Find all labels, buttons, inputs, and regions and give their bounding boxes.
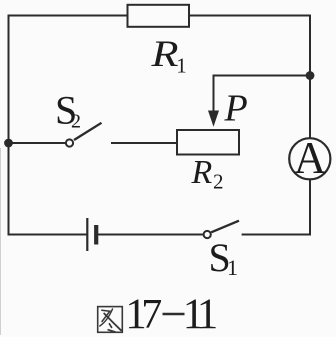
wire: top rail left segment [9, 15, 128, 17]
wire: left rail [8, 16, 10, 235]
wire: bottom rail right (switch S1 to corner) [243, 234, 310, 236]
rheostat R2 [177, 130, 239, 155]
svg-text:2: 2 [71, 111, 81, 133]
label S1 [209, 235, 239, 280]
wire: bottom rail middle (battery to switch S1) [98, 234, 203, 236]
svg-text:7: 7 [141, 292, 162, 337]
label R2 [191, 154, 224, 194]
resistor R1 [128, 5, 190, 27]
svg-text:2: 2 [213, 170, 224, 194]
svg-text:R: R [150, 34, 178, 75]
caption: dash [163, 313, 185, 316]
wire: bottom rail left (corner to battery) [9, 234, 87, 236]
wire: right rail upper (top corner to ammeter) [309, 16, 311, 139]
caption: figure number 17-11 [125, 291, 218, 337]
switch S2 [66, 123, 102, 147]
wire: middle branch right (switch S2 to R2) [112, 142, 177, 144]
wire: top rail right segment [189, 15, 310, 17]
switch S1 [204, 221, 239, 238]
svg-text:1: 1 [197, 291, 219, 337]
battery (cell) [87, 218, 96, 251]
wire: slider branch from node to arrow [214, 76, 311, 112]
scan artifact: faint left edge line [0, 148, 2, 335]
svg-text:A: A [294, 133, 327, 183]
node B (junction dot on left rail) [4, 139, 13, 148]
label S2 [55, 88, 81, 133]
slider arrow P (wiper arrowhead) [208, 111, 219, 127]
caption: hand-drawn CJK glyph "tu" (figure) [98, 307, 123, 333]
label R1 [150, 34, 186, 78]
ammeter U1 [289, 133, 330, 183]
svg-text:1: 1 [176, 54, 187, 78]
svg-text:P: P [224, 88, 248, 130]
svg-text:R: R [191, 154, 213, 191]
wire: middle branch left (node to switch S2) [9, 142, 66, 144]
wire: right rail lower (ammeter to bottom corner) [309, 179, 311, 234]
node A (junction dot on right rail) [306, 71, 315, 80]
svg-text:1: 1 [227, 255, 238, 280]
